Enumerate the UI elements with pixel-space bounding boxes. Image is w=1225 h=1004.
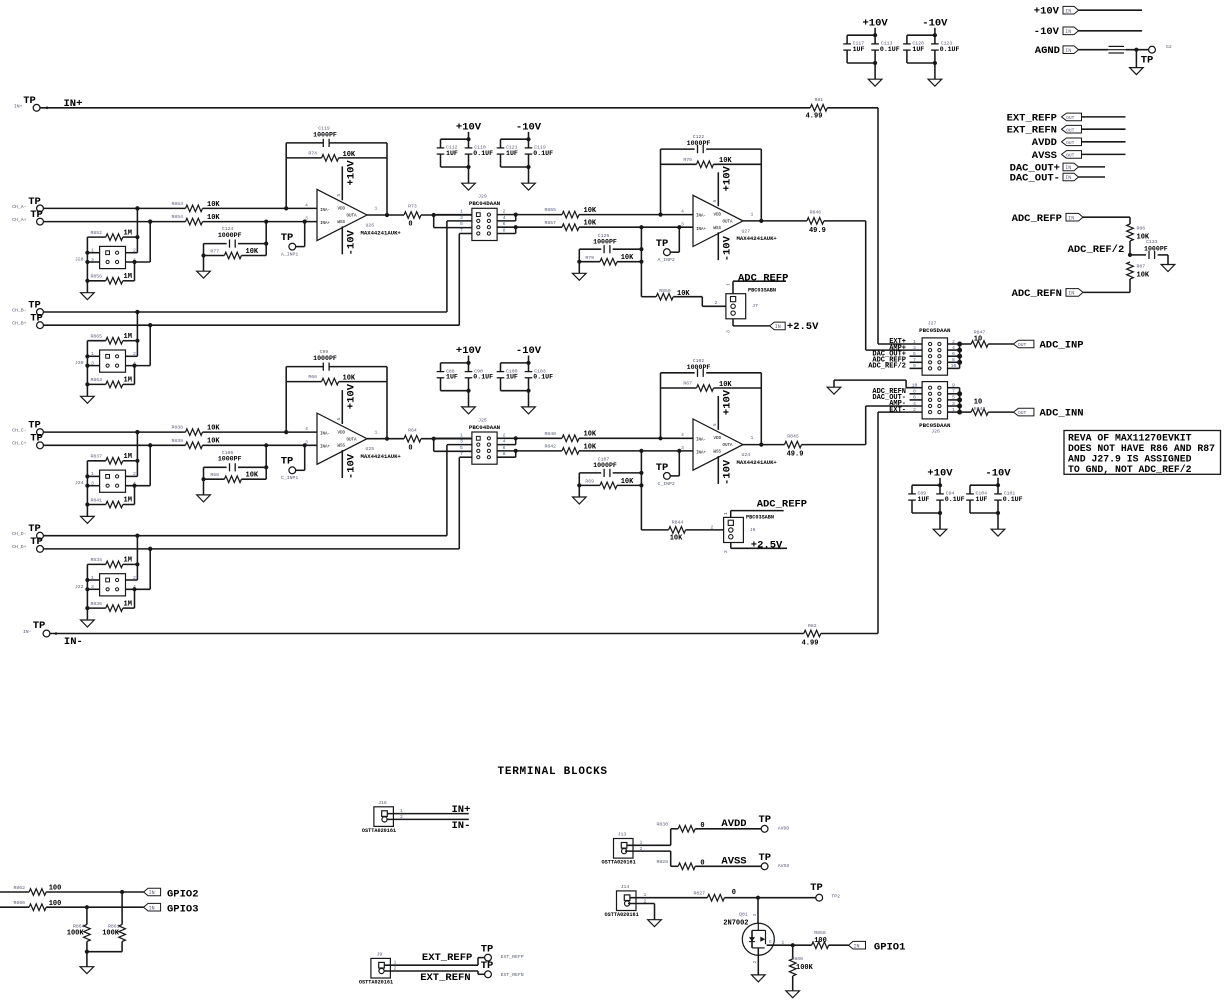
test point TP G2 xyxy=(1149,46,1156,53)
svg-text:10K: 10K xyxy=(719,381,732,389)
svg-text:R844: R844 xyxy=(672,520,684,526)
wire ground stub xyxy=(468,391,470,407)
svg-text:G2: G2 xyxy=(1166,44,1172,50)
wire CH_B+ xyxy=(43,324,459,326)
net DAC_OUT- stub xyxy=(910,399,923,401)
svg-text:8: 8 xyxy=(503,228,506,234)
ground xyxy=(933,529,947,536)
resistor R854 10K xyxy=(186,218,203,225)
svg-text:10K: 10K xyxy=(207,438,220,446)
svg-text:R69: R69 xyxy=(585,479,594,485)
svg-text:R68: R68 xyxy=(210,472,219,478)
wire CH_D- xyxy=(43,535,447,537)
ground xyxy=(752,975,766,982)
wire RC left xyxy=(578,473,580,497)
node ADC_INP output flag xyxy=(1013,340,1034,348)
svg-text:TP: TP xyxy=(481,944,494,956)
svg-text:R67: R67 xyxy=(683,381,692,387)
svg-text:OUT: OUT xyxy=(1018,342,1027,348)
svg-text:-10V: -10V xyxy=(346,230,358,256)
svg-text:R865: R865 xyxy=(90,334,102,340)
wire CH_C- xyxy=(43,431,185,433)
svg-text:C133: C133 xyxy=(1146,239,1158,245)
wire J6 pin1 stub xyxy=(730,511,732,518)
svg-text:4.99: 4.99 xyxy=(806,113,823,121)
capacitor C120 1UF xyxy=(906,35,908,44)
resistor R838 10K xyxy=(186,429,203,436)
op-amp U26 MAX44241AUK+ xyxy=(317,189,367,240)
wire U26 VDD stub xyxy=(341,166,343,200)
capacitor C123 0.1UF xyxy=(934,35,936,44)
terminal block J13 OSTTA020161 xyxy=(614,839,634,859)
resistor R79 10K xyxy=(579,261,600,263)
wire CH_D+ to J25 pin7 xyxy=(458,457,460,549)
svg-text:1UF: 1UF xyxy=(976,496,988,503)
svg-text:2: 2 xyxy=(753,960,758,963)
svg-text:TP: TP xyxy=(481,960,494,972)
svg-text:1: 1 xyxy=(751,435,754,441)
svg-text:R866: R866 xyxy=(13,900,25,906)
svg-text:DOES NOT HAVE R86 AND R87: DOES NOT HAVE R86 AND R87 xyxy=(1068,443,1215,454)
svg-text:0.1UF: 0.1UF xyxy=(880,46,900,53)
resistor R834 1M xyxy=(87,563,105,565)
svg-text:1000PF: 1000PF xyxy=(593,238,617,245)
net ADC_REFN stub xyxy=(910,393,923,395)
resistor R858 100 xyxy=(793,944,812,946)
svg-text:Q81: Q81 xyxy=(739,911,748,917)
wire U27 VSS stub xyxy=(717,232,719,260)
svg-text:R855: R855 xyxy=(544,207,556,213)
svg-text:+10V: +10V xyxy=(927,467,953,479)
wire J14 pin1 xyxy=(630,897,707,899)
wire AGND xyxy=(1126,49,1149,51)
svg-text:10K: 10K xyxy=(207,425,220,433)
svg-text:100: 100 xyxy=(814,937,827,945)
resistor R77 10K xyxy=(204,255,225,257)
capacitor C124 1000PF xyxy=(204,243,227,245)
svg-text:INA-: INA- xyxy=(320,433,330,437)
svg-text:+10V: +10V xyxy=(346,383,358,409)
wire J26 right tie xyxy=(948,387,960,389)
svg-text:49.9: 49.9 xyxy=(787,451,804,459)
svg-text:3: 3 xyxy=(723,550,729,553)
svg-text:IN: IN xyxy=(854,943,860,949)
svg-text:0.1UF: 0.1UF xyxy=(1003,496,1023,503)
wire bottom rail xyxy=(912,512,940,514)
svg-text:1UF: 1UF xyxy=(506,374,518,381)
svg-text:10K: 10K xyxy=(207,214,220,222)
svg-text:R839: R839 xyxy=(171,438,183,444)
wire J25 pin2/4 tie xyxy=(497,437,516,439)
svg-text:REVA OF MAX11270EVKIT: REVA OF MAX11270EVKIT xyxy=(1068,433,1192,444)
resistor R839 10K xyxy=(186,442,203,449)
resistor R74 10K xyxy=(286,157,321,159)
svg-text:1000PF: 1000PF xyxy=(313,131,337,138)
svg-text:1000PF: 1000PF xyxy=(1144,246,1168,253)
svg-text:TP: TP xyxy=(758,852,771,864)
svg-text:10K: 10K xyxy=(584,220,597,228)
svg-text:1: 1 xyxy=(640,840,643,846)
wire to R830 xyxy=(670,829,672,846)
wire U26 VSS stub xyxy=(341,226,343,254)
svg-text:INA-: INA- xyxy=(696,438,706,442)
svg-text:IN-: IN- xyxy=(64,636,83,648)
svg-text:IN: IN xyxy=(1065,8,1071,14)
svg-text:10: 10 xyxy=(974,336,982,344)
svg-text:3: 3 xyxy=(681,445,684,451)
svg-text:2: 2 xyxy=(640,846,643,852)
svg-text:R861: R861 xyxy=(108,923,120,929)
svg-text:J28: J28 xyxy=(75,257,84,263)
svg-text:1: 1 xyxy=(375,429,378,435)
svg-text:+10V: +10V xyxy=(722,389,734,415)
svg-text:VDD: VDD xyxy=(338,431,346,435)
svg-text:4: 4 xyxy=(681,208,684,214)
ground xyxy=(81,396,95,403)
wire Q81 gate xyxy=(766,944,768,946)
svg-text:ADC_REF/2: ADC_REF/2 xyxy=(1068,244,1125,256)
svg-text:1000PF: 1000PF xyxy=(218,456,242,463)
svg-text:R836: R836 xyxy=(90,601,102,607)
wire RC left xyxy=(203,467,205,495)
svg-text:CH_B+: CH_B+ xyxy=(12,321,27,327)
ground xyxy=(868,79,882,86)
svg-text:5: 5 xyxy=(460,445,463,451)
svg-text:IN: IN xyxy=(1065,29,1071,35)
svg-text:OUT: OUT xyxy=(1066,115,1075,121)
svg-text:OUTA: OUTA xyxy=(723,444,734,448)
resistor R836 1M xyxy=(87,607,105,609)
svg-text:10K: 10K xyxy=(343,375,356,383)
svg-text:0: 0 xyxy=(700,822,704,830)
resistor R860 100K xyxy=(792,945,794,959)
svg-text:100: 100 xyxy=(49,900,62,908)
wire bottom rail xyxy=(501,390,529,392)
svg-text:1UF: 1UF xyxy=(506,150,518,157)
capacitor C100 1UF xyxy=(500,363,502,372)
jumper J22 xyxy=(100,574,126,596)
svg-text:R834: R834 xyxy=(90,557,102,563)
svg-text:CH_A-: CH_A- xyxy=(12,204,27,210)
svg-text:INA+: INA+ xyxy=(320,222,331,226)
svg-text:INA+: INA+ xyxy=(696,228,707,232)
capacitor C133 1000PF xyxy=(1130,254,1146,256)
svg-text:1M: 1M xyxy=(124,453,132,461)
svg-text:R860: R860 xyxy=(792,956,804,962)
svg-text:PBC05DAAN: PBC05DAAN xyxy=(919,422,951,429)
net ADC_REF/2 stub xyxy=(910,367,923,369)
wire top rail xyxy=(847,34,875,36)
wire INA- feedback junction xyxy=(658,436,662,440)
svg-text:5: 5 xyxy=(336,194,342,197)
wire feedback right vertical xyxy=(760,149,762,221)
wire CH_A+ xyxy=(43,221,185,223)
svg-text:EXT_REFN: EXT_REFN xyxy=(501,972,524,978)
resistor R82 4.99 xyxy=(804,630,821,637)
wire feedback right vertical xyxy=(386,367,388,439)
wire AMP- into J26 pin4 xyxy=(866,405,922,407)
svg-text:2: 2 xyxy=(712,227,718,230)
svg-text:OUT: OUT xyxy=(1066,127,1075,133)
wire RC right vertical xyxy=(640,227,642,297)
svg-text:4: 4 xyxy=(681,432,684,438)
svg-text:ADC_REFP: ADC_REFP xyxy=(757,499,807,511)
svg-text:R852: R852 xyxy=(90,230,102,236)
svg-text:3: 3 xyxy=(726,330,732,333)
svg-text:R845: R845 xyxy=(787,433,799,439)
svg-text:R847: R847 xyxy=(974,329,986,335)
svg-text:3: 3 xyxy=(913,345,916,351)
resistor R828 0 xyxy=(671,865,679,867)
capacitor C94 0.1UF xyxy=(939,485,941,494)
svg-text:INA-: INA- xyxy=(696,215,706,219)
svg-text:1: 1 xyxy=(644,892,647,898)
svg-text:R856: R856 xyxy=(90,274,102,280)
wire feedback left vertical xyxy=(285,367,287,433)
wire output node xyxy=(432,213,436,217)
svg-text:AVSS: AVSS xyxy=(778,863,790,869)
svg-text:1: 1 xyxy=(460,209,463,215)
svg-text:GPIO1: GPIO1 xyxy=(874,942,906,954)
resistor R866 100 xyxy=(0,906,29,908)
capacitor C113 0.1UF xyxy=(874,35,876,44)
capacitor C121 1UF xyxy=(500,139,502,148)
svg-text:TP: TP xyxy=(281,232,294,244)
wire CH_B- xyxy=(43,311,447,313)
wire EXT- into J26 pin2 xyxy=(878,411,922,413)
node GPIO2 input flag xyxy=(120,890,124,894)
svg-text:R82: R82 xyxy=(808,623,817,629)
wire +10V stub xyxy=(468,356,470,363)
svg-text:3: 3 xyxy=(460,439,463,445)
svg-text:J29: J29 xyxy=(478,194,487,200)
svg-text:J6: J6 xyxy=(750,527,756,533)
power +2.5V flag xyxy=(770,322,786,330)
svg-text:-10V: -10V xyxy=(346,453,358,479)
svg-text:1M: 1M xyxy=(124,497,132,505)
resistor R857 10K xyxy=(516,226,562,228)
wire U24 VDD stub xyxy=(717,396,719,430)
svg-text:R841: R841 xyxy=(90,497,102,503)
svg-text:1UF: 1UF xyxy=(918,496,930,503)
svg-text:4: 4 xyxy=(305,202,308,208)
capacitor C102 1000PF xyxy=(661,372,695,374)
svg-text:TP: TP xyxy=(1141,54,1154,66)
wire J7 pin3 stub xyxy=(732,319,734,326)
svg-text:-10V: -10V xyxy=(722,235,734,261)
wire J9 pin1 xyxy=(384,964,478,966)
ground xyxy=(648,920,662,927)
wire left rail xyxy=(86,341,88,397)
svg-text:10K: 10K xyxy=(584,443,597,451)
svg-text:U25: U25 xyxy=(366,446,375,452)
wire left rail xyxy=(86,564,88,620)
wire top rail xyxy=(501,362,529,364)
wire CH_C+ xyxy=(43,444,185,446)
wire Q81 source xyxy=(757,948,759,975)
wire J26 pin10 to ground xyxy=(906,387,922,389)
wire J29 pin7 lead xyxy=(459,233,472,235)
wire ground stub xyxy=(468,167,470,183)
svg-text:2: 2 xyxy=(913,407,916,413)
net tie symbol xyxy=(1109,45,1125,47)
svg-text:AVSS: AVSS xyxy=(1032,150,1057,162)
svg-text:R76: R76 xyxy=(683,157,692,163)
note box REVA xyxy=(1064,431,1221,475)
wire J25 pin6/8 tie xyxy=(497,450,516,452)
svg-text:1UF: 1UF xyxy=(446,150,458,157)
svg-text:OUTA: OUTA xyxy=(347,215,358,219)
wire J29 pin1 lead xyxy=(434,214,472,216)
svg-text:6: 6 xyxy=(503,445,506,451)
svg-text:R827: R827 xyxy=(693,890,705,896)
svg-text:0: 0 xyxy=(700,859,704,867)
svg-text:ADC_INP: ADC_INP xyxy=(1040,340,1084,352)
svg-text:1M: 1M xyxy=(124,377,132,385)
svg-text:10K: 10K xyxy=(584,207,597,215)
svg-text:+2.5V: +2.5V xyxy=(751,539,783,551)
svg-text:OUT: OUT xyxy=(1066,153,1075,159)
svg-text:J30: J30 xyxy=(75,360,84,366)
svg-text:1: 1 xyxy=(751,212,754,218)
svg-text:1UF: 1UF xyxy=(446,374,458,381)
svg-text:10: 10 xyxy=(912,383,918,389)
svg-text:R86: R86 xyxy=(1137,226,1146,232)
wire J14 pin2 to ground xyxy=(628,903,655,905)
svg-text:100K: 100K xyxy=(102,929,120,937)
svg-text:EXT_REFN: EXT_REFN xyxy=(420,972,470,984)
resistor R853 10K xyxy=(186,205,203,212)
svg-text:1UF: 1UF xyxy=(853,46,865,53)
wire EXT+ rail xyxy=(877,108,879,344)
svg-text:0: 0 xyxy=(408,444,412,452)
ground xyxy=(991,529,1005,536)
wire top rail xyxy=(907,34,935,36)
svg-text:10K: 10K xyxy=(246,248,259,256)
svg-text:1M: 1M xyxy=(124,333,132,341)
capacitor C101 0.1UF xyxy=(997,485,999,494)
capacitor C104 1UF xyxy=(969,485,971,494)
svg-text:AVDD: AVDD xyxy=(721,818,746,830)
resistor R837 1M xyxy=(87,460,105,462)
wire plus branch xyxy=(149,445,151,485)
wire ground stub xyxy=(874,63,876,79)
svg-text:A_INP1: A_INP1 xyxy=(281,251,298,257)
svg-text:IN-: IN- xyxy=(452,820,471,832)
svg-text:R859: R859 xyxy=(659,288,671,294)
resistor R827 0 xyxy=(707,894,724,901)
svg-text:1: 1 xyxy=(913,339,916,345)
svg-text:R843: R843 xyxy=(974,406,986,412)
svg-text:3: 3 xyxy=(460,215,463,221)
ground xyxy=(80,967,94,974)
svg-text:-10V: -10V xyxy=(722,459,734,485)
svg-text:2: 2 xyxy=(644,899,647,905)
svg-text:PBC04DAAN: PBC04DAAN xyxy=(469,200,501,207)
svg-text:+10V: +10V xyxy=(1034,6,1060,18)
wire J6 pin3 stub xyxy=(730,543,732,549)
header J6 PBC03SABN xyxy=(724,517,744,542)
wire J29 pin3 lead xyxy=(447,220,472,222)
wire RC right xyxy=(265,445,267,479)
op-amp U27 MAX44241AUK+ xyxy=(693,195,743,246)
wire R837 junction xyxy=(135,459,139,463)
op-amp U24 MAX44241AUK+ xyxy=(693,419,743,470)
resistor R841 1M xyxy=(87,504,105,506)
svg-text:AVDD: AVDD xyxy=(778,826,790,832)
svg-text:EXT_REFP: EXT_REFP xyxy=(422,952,472,964)
resistor R87 10K xyxy=(1127,262,1134,279)
wire J22 pin leads xyxy=(87,579,99,581)
wire U25 VDD stub xyxy=(341,390,343,424)
svg-text:AVSS: AVSS xyxy=(721,856,746,868)
svg-text:7: 7 xyxy=(460,228,463,234)
wire -10V stub xyxy=(528,356,530,363)
svg-text:3: 3 xyxy=(753,913,758,916)
wire top rail xyxy=(912,484,940,486)
svg-text:J13: J13 xyxy=(618,832,627,838)
resistor R81 4.99 xyxy=(810,105,827,112)
wire CH_D- to J25 pin3 xyxy=(446,445,448,536)
resistor R86 10K xyxy=(1129,217,1131,224)
wire IN+ xyxy=(40,107,810,109)
ground xyxy=(522,183,536,190)
wire U25 VSS stub xyxy=(341,450,343,478)
wire feedback right vertical xyxy=(760,373,762,445)
wire J13 pin1 xyxy=(627,844,671,846)
svg-text:9: 9 xyxy=(913,363,916,369)
wire -10V stub xyxy=(997,478,999,485)
capacitor C110 0.1UF xyxy=(468,139,470,148)
svg-text:R87: R87 xyxy=(1137,264,1146,270)
svg-text:J25: J25 xyxy=(478,417,487,423)
svg-text:U24: U24 xyxy=(742,452,751,458)
svg-text:-10V: -10V xyxy=(1034,26,1060,38)
resistor R67 10K xyxy=(661,387,697,389)
svg-text:IN: IN xyxy=(1068,291,1074,297)
svg-text:VDD: VDD xyxy=(714,214,722,218)
wire left rail xyxy=(86,461,88,517)
wire RC left xyxy=(578,249,580,273)
svg-text:C_INP1: C_INP1 xyxy=(281,475,298,481)
wire EXT- rail xyxy=(877,412,879,633)
wire -10V stub xyxy=(934,28,936,35)
svg-text:OUTA: OUTA xyxy=(347,438,358,442)
wire ground stub xyxy=(939,513,941,529)
wire CH_B- to J29 pin3 xyxy=(446,221,448,312)
ground xyxy=(522,407,536,414)
svg-text:VDD: VDD xyxy=(714,437,722,441)
svg-text:R846: R846 xyxy=(810,210,822,216)
svg-text:1000PF: 1000PF xyxy=(687,364,711,371)
svg-text:5: 5 xyxy=(712,423,718,426)
svg-text:IN: IN xyxy=(1065,175,1071,181)
svg-text:+10V: +10V xyxy=(722,166,734,192)
svg-text:R842: R842 xyxy=(544,444,556,450)
wire +10V stub xyxy=(939,478,941,485)
wire J13 pin2 xyxy=(625,850,671,852)
capacitor C119 0.1UF xyxy=(528,139,530,148)
wire output node xyxy=(432,437,436,441)
svg-text:1: 1 xyxy=(400,808,403,814)
svg-text:PBC03SABN: PBC03SABN xyxy=(746,515,774,521)
resistor R842 10K xyxy=(516,450,562,452)
net DAC_OUT+ stub xyxy=(910,355,923,357)
svg-text:1: 1 xyxy=(460,432,463,438)
svg-text:J16: J16 xyxy=(378,800,387,806)
svg-text:ADC_REFP: ADC_REFP xyxy=(738,272,788,284)
svg-text:IN: IN xyxy=(775,324,781,330)
